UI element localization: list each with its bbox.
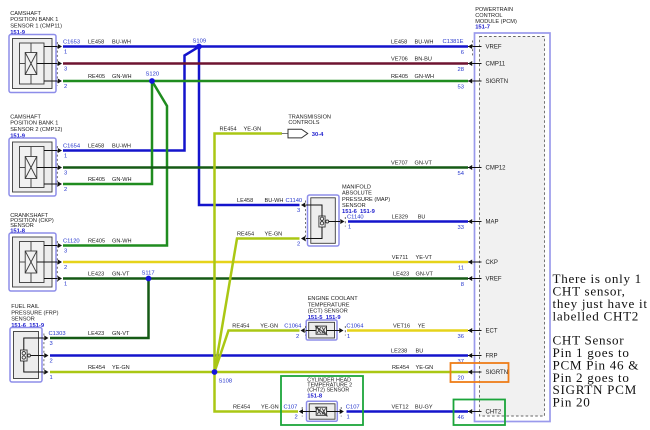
svg-text:LE458: LE458 <box>88 144 104 150</box>
svg-text:VE707: VE707 <box>391 161 408 167</box>
svg-text:RE454: RE454 <box>232 324 249 330</box>
annotation text block <box>553 271 648 409</box>
svg-text:C1654: C1654 <box>63 143 81 149</box>
svg-text:37: 37 <box>458 359 464 365</box>
svg-text:1: 1 <box>348 225 351 231</box>
svg-text:VET16: VET16 <box>393 324 410 330</box>
wire label VE711 YE-VT (to PCM 11) <box>392 255 433 261</box>
svg-text:CHT2: CHT2 <box>486 410 502 416</box>
svg-text:2: 2 <box>297 242 300 248</box>
wire RE454 YE-GN branch: S108 diagonal to MAP pin 2 <box>215 239 300 373</box>
PCM pin 33 MAP <box>458 219 499 231</box>
wire label VE707 GN-VT (to PCM 54) <box>391 161 432 167</box>
svg-text:TEMPERATURE: TEMPERATURE <box>308 302 350 308</box>
wire label RE405 GN-WH (CKP pin3) <box>88 239 132 245</box>
ECT pin 2 arrow <box>301 328 305 333</box>
connector C1653 dashed line <box>56 42 58 86</box>
splice S120 <box>149 78 155 84</box>
CHT2 sensor symbol <box>302 401 341 421</box>
svg-text:C1140: C1140 <box>347 214 364 220</box>
wire label LE458 BU-WH (CMP11 pin1) <box>88 40 131 46</box>
svg-text:POSITION BANK 1: POSITION BANK 1 <box>10 17 58 23</box>
svg-text:LE423: LE423 <box>88 272 104 278</box>
svg-text:BN-BU: BN-BU <box>415 57 432 63</box>
svg-text:PRESSURE (FRP): PRESSURE (FRP) <box>11 310 58 316</box>
svg-text:BU: BU <box>416 349 424 355</box>
PCM outer box <box>475 33 551 422</box>
svg-text:labelled CHT2: labelled CHT2 <box>553 308 640 323</box>
svg-text:LE238: LE238 <box>391 349 407 355</box>
camshaft position sensor CMP11 symbol <box>9 35 58 93</box>
PCM pin 36 ECT <box>458 328 498 340</box>
svg-text:C1064: C1064 <box>346 323 364 329</box>
wire label VET12 BU-GY (to PCM 46) <box>392 405 433 411</box>
svg-text:YE-GN: YE-GN <box>244 127 262 133</box>
svg-text:ECT: ECT <box>486 329 498 335</box>
svg-text:SIGRTN: SIGRTN <box>486 79 509 85</box>
wire VE711 YE-VT: CKP pin2 to PCM pin 11 <box>63 261 468 264</box>
PCM pin 54 CMP12 <box>458 165 507 177</box>
svg-text:28: 28 <box>458 67 464 73</box>
CHT2 connector C107 dashed line left <box>301 407 303 417</box>
PCM pin 6 VREF <box>461 44 502 56</box>
wire label RE454 YE-GN (to transmission controls) <box>220 127 262 133</box>
svg-text:S117: S117 <box>142 271 155 277</box>
crankshaft position sensor CKP symbol <box>9 233 58 291</box>
svg-text:CAMSHAFT: CAMSHAFT <box>10 114 41 120</box>
svg-text:YE-GN: YE-GN <box>260 324 278 330</box>
wire RE454 YE-GN SIGRTN: FRP pin1 via S108 to PCM pin 20 <box>50 371 468 374</box>
svg-text:GN-WH: GN-WH <box>112 74 132 80</box>
svg-text:(ECT) SENSOR: (ECT) SENSOR <box>308 309 348 315</box>
wire VE707 GN-VT: CMP12 pin3 to PCM pin 54 <box>63 166 468 169</box>
svg-text:BU-WH: BU-WH <box>112 144 131 150</box>
camshaft position sensor CMP11 pin 3 arrow <box>58 61 62 66</box>
svg-text:RE454: RE454 <box>392 365 409 371</box>
wire label RE405 GN-WH (to PCM 53) <box>391 74 434 80</box>
wire label LE423 GN-VT (CKP pin1) <box>88 272 130 278</box>
MAP pin 3 arrow <box>301 203 305 208</box>
svg-text:CONTROLS: CONTROLS <box>288 120 319 126</box>
wire label RE454 YE-GN (CHT2 pin2) <box>233 405 279 411</box>
svg-text:C1653: C1653 <box>63 39 80 45</box>
wire VET12 BU-GY: CHT2 pin1 to PCM pin 46 <box>347 410 469 413</box>
svg-text:SENSOR: SENSOR <box>11 317 35 323</box>
svg-text:151-7: 151-7 <box>475 25 490 31</box>
connector C1654 dashed line <box>56 146 58 189</box>
svg-text:C1303: C1303 <box>49 331 66 337</box>
svg-text:53: 53 <box>458 85 464 91</box>
wire label LE423 GN-VT (to PCM 8) <box>393 272 433 278</box>
svg-text:20: 20 <box>458 376 464 382</box>
FRP pin 2 arrow <box>44 353 48 358</box>
wire label LE458 BU-WH (CMP12 pin1) <box>88 144 131 150</box>
wire branch from S109 down to MAP sensor pin 3 <box>199 47 300 206</box>
svg-text:6: 6 <box>461 50 464 56</box>
svg-text:11: 11 <box>458 266 464 272</box>
wire RE454 YE-GN branch: S108 diagonal to ECT pin 2 <box>215 331 300 373</box>
svg-text:C107: C107 <box>284 404 298 410</box>
wire LE238 BU: FRP pin2 to PCM pin 37 <box>50 354 468 357</box>
PCM pin 46 CHT2 <box>458 409 502 421</box>
wire LE423 GN-VT: CKP pin1 to PCM pin 8 via S117 <box>63 277 468 280</box>
MAP connector C1140 dashed line left <box>305 201 307 244</box>
svg-text:RE405: RE405 <box>88 74 105 80</box>
ECT pin 1 arrow <box>339 328 343 333</box>
svg-text:GN-WH: GN-WH <box>112 239 132 245</box>
svg-text:1: 1 <box>347 415 350 421</box>
splice S109 <box>196 44 202 50</box>
CHT2 connector C107 dashed line right <box>340 407 342 417</box>
svg-text:LE458: LE458 <box>237 198 253 204</box>
svg-text:ABSOLUTE: ABSOLUTE <box>342 191 372 197</box>
transmission controls off-page arrow symbol <box>282 133 289 135</box>
svg-text:1: 1 <box>64 154 67 160</box>
svg-text:3: 3 <box>50 341 53 347</box>
svg-text:VREF: VREF <box>486 277 502 283</box>
PCM pin 28 CMP11 <box>458 61 506 73</box>
camshaft position sensor CMP12 pin 2 arrow <box>58 182 62 187</box>
MAP pin 1 arrow <box>340 219 344 224</box>
svg-text:CKP: CKP <box>486 260 498 266</box>
FRP pin 3 arrow <box>44 336 48 341</box>
CHT2 pin 1 arrow <box>340 409 344 414</box>
PCM pin 20 SIGRTN <box>458 370 509 382</box>
svg-text:YE-GN: YE-GN <box>112 365 130 371</box>
crankshaft position sensor CKP pin 3 arrow <box>58 243 62 248</box>
svg-text:C1140: C1140 <box>286 198 303 204</box>
wire label RE454 YE-GN (FRP pin1) <box>88 365 130 371</box>
svg-text:46: 46 <box>458 415 464 421</box>
svg-text:S108: S108 <box>219 378 233 384</box>
wire label VET16 YE (to PCM 36) <box>393 324 425 330</box>
splice S117 <box>146 276 152 282</box>
svg-text:LE423: LE423 <box>88 331 104 337</box>
MAP sensor symbol <box>306 195 340 246</box>
svg-text:FUEL RAIL: FUEL RAIL <box>11 304 39 310</box>
svg-text:RE405: RE405 <box>88 177 105 183</box>
FRP sensor symbol <box>10 328 44 383</box>
svg-text:YE-GN: YE-GN <box>261 405 279 411</box>
MAP pin 2 arrow <box>301 236 305 241</box>
wire label LE423 GN-VT (FRP pin3) <box>88 331 130 337</box>
wire LE458 BU-WH VREF bus: CMP11 pin1 to PCM pin 6 <box>63 45 468 48</box>
svg-text:BU-WH: BU-WH <box>265 198 284 204</box>
svg-text:3: 3 <box>64 249 67 255</box>
svg-text:SENSOR 1 (CMP11): SENSOR 1 (CMP11) <box>10 23 62 29</box>
wire branch from S120 to CMP12 pin 2 <box>63 81 152 184</box>
svg-text:LE458: LE458 <box>88 40 104 46</box>
svg-text:YE: YE <box>418 324 426 330</box>
splice S108 <box>212 369 218 375</box>
svg-text:VET12: VET12 <box>392 405 409 411</box>
svg-text:GN-WH: GN-WH <box>112 177 132 183</box>
svg-text:2: 2 <box>50 359 53 365</box>
svg-text:C107: C107 <box>346 404 360 410</box>
svg-text:SIGRTN: SIGRTN <box>486 370 509 376</box>
svg-text:MAP: MAP <box>486 220 499 226</box>
svg-text:Pin 20: Pin 20 <box>553 395 591 410</box>
svg-text:FRP: FRP <box>486 354 498 360</box>
svg-text:ENGINE COOLANT: ENGINE COOLANT <box>308 296 359 302</box>
svg-text:S120: S120 <box>146 72 160 78</box>
green highlight box around PCM pin 46 CHT2 <box>454 400 506 426</box>
svg-text:S109: S109 <box>193 39 207 45</box>
svg-text:BU-WH: BU-WH <box>112 40 131 46</box>
inline connector C1381E at PCM VREF pin <box>472 41 474 57</box>
wire label RE454 YE-GN (ECT pin2) <box>232 324 278 330</box>
svg-text:GN-VT: GN-VT <box>416 272 434 278</box>
svg-text:8: 8 <box>461 282 464 288</box>
MAP connector C1140 dashed line right <box>344 217 346 227</box>
orange highlight box around PCM pin 20 SIGRTN <box>451 363 509 382</box>
svg-text:1: 1 <box>50 375 53 381</box>
svg-text:YE-VT: YE-VT <box>416 255 433 261</box>
wire label RE405 GN-WH (CMP11 pin2) <box>88 74 132 80</box>
wire label RE454 YE-GN (MAP pin2) <box>237 232 282 238</box>
camshaft position sensor CMP11 pin 2 arrow <box>58 79 62 84</box>
svg-text:CMP12: CMP12 <box>486 166 507 172</box>
camshaft position sensor CMP12 pin 3 arrow <box>58 165 62 170</box>
svg-text:33: 33 <box>458 225 464 231</box>
svg-text:MANIFOLD: MANIFOLD <box>342 185 371 191</box>
svg-text:RE454: RE454 <box>88 365 105 371</box>
wire label LE238 BU (to PCM 37) <box>391 349 423 355</box>
wire label LE329 BU (to PCM 33) <box>392 215 426 221</box>
svg-text:RE454: RE454 <box>237 232 254 238</box>
wire label RE454 YE-GN (to PCM 20) <box>392 365 433 371</box>
wire RE405 GN-WH SIGRTN bus: CMP11 pin2 to PCM pin 53 <box>63 80 468 83</box>
svg-text:LE329: LE329 <box>392 215 408 221</box>
PCM pin 37 FRP <box>458 353 498 365</box>
svg-text:VE711: VE711 <box>392 255 408 261</box>
wire branch from S120 to CKP pin 3 <box>63 81 167 246</box>
svg-text:2: 2 <box>64 265 67 271</box>
svg-text:2: 2 <box>64 84 67 90</box>
svg-text:1: 1 <box>347 334 350 340</box>
svg-text:C1381E: C1381E <box>443 39 464 45</box>
svg-text:1: 1 <box>64 50 67 56</box>
svg-text:151-8: 151-8 <box>307 393 323 399</box>
svg-text:30-4: 30-4 <box>312 132 324 138</box>
camshaft position sensor CMP11 pin 1 arrow <box>58 44 62 49</box>
svg-text:3: 3 <box>297 208 300 214</box>
svg-text:SENSOR: SENSOR <box>342 203 366 209</box>
svg-text:3: 3 <box>64 171 67 177</box>
camshaft position sensor CMP12 pin 1 arrow <box>58 148 62 153</box>
svg-text:YE-GN: YE-GN <box>265 232 283 238</box>
svg-text:POSITION BANK 1: POSITION BANK 1 <box>10 121 58 127</box>
camshaft position sensor CMP12 symbol <box>9 138 58 196</box>
crankshaft position sensor CKP pin 1 arrow <box>58 276 62 281</box>
svg-text:3: 3 <box>64 67 67 73</box>
svg-text:RE405: RE405 <box>88 239 105 245</box>
svg-text:GN-VT: GN-VT <box>112 331 130 337</box>
wire branch S117 down to FRP pin 3 <box>50 279 149 339</box>
ECT connector C1064 dashed line right <box>344 326 346 336</box>
svg-text:2: 2 <box>296 334 299 340</box>
svg-text:2: 2 <box>295 415 298 421</box>
svg-text:GN-VT: GN-VT <box>415 161 433 167</box>
svg-text:(CHT2) SENSOR: (CHT2) SENSOR <box>307 387 349 393</box>
PCM connector dashed box <box>480 37 545 417</box>
svg-text:BU-WH: BU-WH <box>415 40 434 46</box>
wire RE454 YE-GN: S108 up to transmission controls and down to CHT2 pin 2 <box>215 134 299 412</box>
svg-text:54: 54 <box>458 171 465 177</box>
svg-text:VREF: VREF <box>486 45 502 51</box>
connector C1120 dashed line <box>56 241 58 283</box>
wire branch from S109 to CMP12 pin 1 <box>63 47 199 151</box>
svg-text:LE423: LE423 <box>393 272 409 278</box>
svg-text:BU: BU <box>418 215 426 221</box>
svg-text:GN-VT: GN-VT <box>112 272 130 278</box>
svg-text:1: 1 <box>64 282 67 288</box>
PCM pin 11 CKP <box>458 260 498 272</box>
wire VE706 BN-BU: CMP11 pin3 to PCM pin 28 <box>63 62 468 65</box>
PCM pin 8 VREF <box>461 276 502 288</box>
wire LE329 BU: MAP pin1 to PCM pin 33 <box>348 220 468 223</box>
svg-text:RE454: RE454 <box>233 405 250 411</box>
ECT connector C1064 dashed line left <box>305 326 307 336</box>
wire label LE458 BU-WH (MAP pin3) <box>237 198 283 204</box>
svg-text:GN-WH: GN-WH <box>415 74 435 80</box>
FRP pin 1 arrow <box>44 370 48 375</box>
svg-text:CMP11: CMP11 <box>486 62 506 68</box>
svg-text:RE454: RE454 <box>220 127 237 133</box>
wire label VE706 BN-BU (to PCM 28) <box>391 57 432 63</box>
svg-text:YE-GN: YE-GN <box>416 365 434 371</box>
crankshaft position sensor CKP pin 2 arrow <box>58 260 62 265</box>
svg-text:PRESSURE (MAP): PRESSURE (MAP) <box>342 197 390 203</box>
svg-text:VE706: VE706 <box>391 57 408 63</box>
svg-text:RE405: RE405 <box>391 74 408 80</box>
svg-text:LE458: LE458 <box>391 40 407 46</box>
svg-text:C1064: C1064 <box>284 323 302 329</box>
wire label LE458 BU-WH (to PCM 6) <box>391 40 433 46</box>
svg-text:BU-GY: BU-GY <box>415 405 433 411</box>
svg-text:SENSOR 2 (CMP12): SENSOR 2 (CMP12) <box>10 127 62 133</box>
wire label RE405 GN-WH (CMP12 pin2) <box>88 177 132 183</box>
connector C1303 dashed line <box>43 334 45 377</box>
svg-text:36: 36 <box>458 334 464 340</box>
ECT sensor symbol <box>306 320 341 340</box>
svg-text:CAMSHAFT: CAMSHAFT <box>10 11 41 17</box>
PCM pin 53 SIGRTN <box>458 79 509 91</box>
green highlight box around CHT2 sensor <box>281 376 363 425</box>
CHT2 pin 2 arrow <box>299 409 303 414</box>
svg-text:2: 2 <box>64 187 67 193</box>
wire VET16 YE: ECT pin1 to PCM pin 36 <box>347 329 468 332</box>
svg-text:C1120: C1120 <box>63 238 80 244</box>
